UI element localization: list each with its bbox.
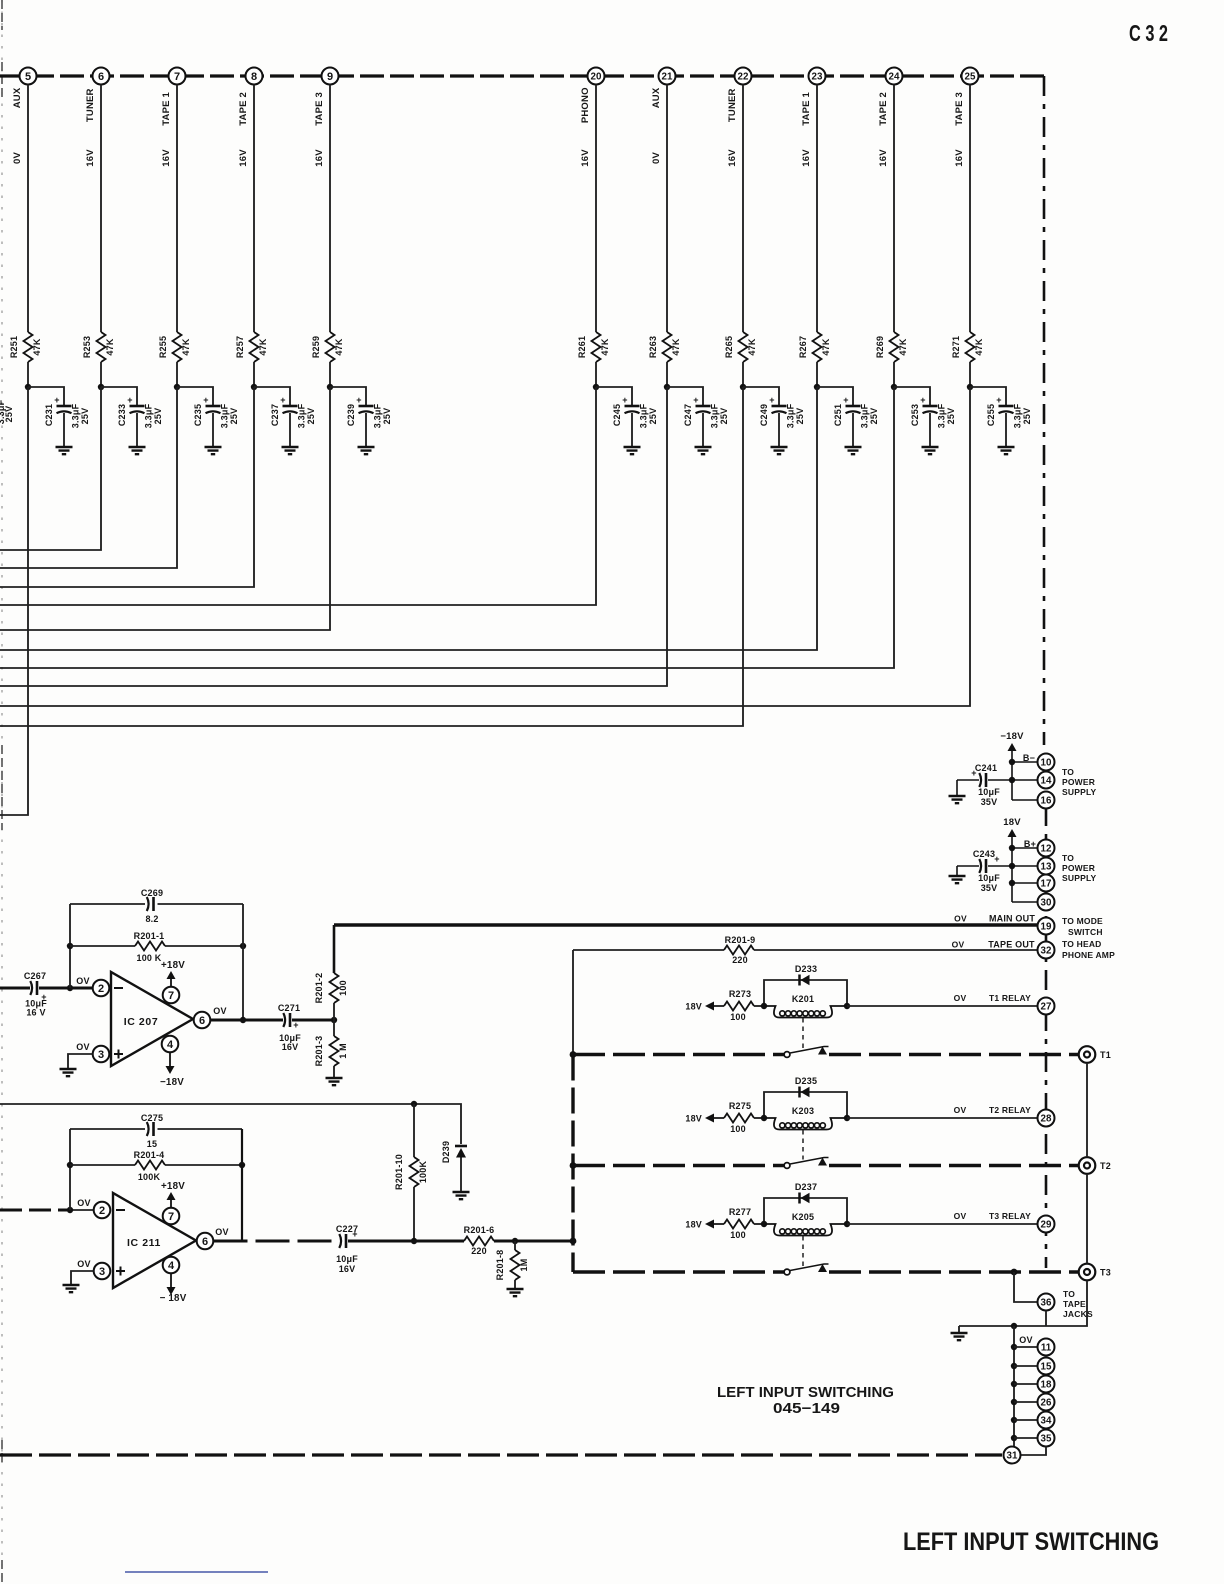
connector circle pin 26 (1038, 1394, 1055, 1411)
resistor R251 47K (9, 332, 42, 362)
resistor R259 47K (311, 332, 344, 362)
svg-text:C241: C241 (975, 763, 997, 773)
svg-text:12: 12 (1041, 844, 1052, 855)
capacitor C241 10uF 35V (957, 763, 1000, 807)
svg-text:10μF: 10μF (978, 787, 1000, 797)
connector circle pin 6 (TUNER input) (93, 68, 110, 85)
label TO POWER SUPPLY (negative rail) (1062, 767, 1097, 797)
wire MAIN OUT bold from R201-2 node to pin 19 (334, 923, 1037, 926)
svg-text:25V: 25V (795, 408, 805, 425)
capacitor C253 3.3uF 25V (910, 395, 956, 428)
node dot R201-1 right (240, 943, 246, 949)
svg-text:−18V: −18V (160, 1077, 184, 1088)
power arrow up to -18V (1008, 743, 1017, 751)
wire column TUNER from junction down to y=726 and left to page edge (0, 387, 743, 726)
wire junction to C251 (817, 387, 853, 406)
node junction dot R257/C237 (251, 384, 257, 390)
op-amp plus sign (IC211) (116, 1267, 125, 1276)
label LEFT INPUT SWITCHING 045-149 (assembly title) (717, 1385, 894, 1417)
capacitor C245 3.3uF 25V (612, 395, 658, 428)
capacitor C233 3.3uF 25V (117, 395, 163, 428)
label 18V feed arrow (R277) (685, 1220, 724, 1230)
wire C251 to ground (852, 413, 854, 447)
svg-text:OV: OV (954, 993, 967, 1003)
node dot OV bus at pin 18 (1011, 1381, 1017, 1387)
svg-text:47K: 47K (747, 338, 757, 355)
svg-text:T3: T3 (1100, 1268, 1111, 1278)
capacitor C251 3.3uF 25V (833, 395, 879, 428)
svg-text:+: + (203, 395, 208, 405)
svg-text:OV: OV (77, 1198, 90, 1208)
connector circle pin 13 (1038, 858, 1055, 875)
svg-text:25V: 25V (306, 408, 316, 425)
pin circle 6 (IC211 output) (197, 1233, 214, 1250)
svg-text:R255: R255 (158, 336, 168, 358)
diode D239 (441, 1141, 467, 1163)
wire C231 to ground (63, 413, 65, 447)
svg-text:9: 9 (327, 71, 333, 83)
node dot R201-4 left (67, 1162, 73, 1168)
svg-text:C233: C233 (117, 404, 127, 426)
svg-text:+: + (622, 395, 627, 405)
svg-text:+: + (356, 395, 361, 405)
connector circle pin 11 (1038, 1339, 1055, 1356)
resistor R273 100 (724, 989, 754, 1022)
svg-text:3.3μF: 3.3μF (144, 403, 154, 428)
svg-text:47K: 47K (821, 338, 831, 355)
connector circle pin 34 (1038, 1412, 1055, 1429)
svg-text:+: + (127, 395, 132, 405)
node junction dot R265/C249 (740, 384, 746, 390)
pin circle 6 (IC207 output) (194, 1012, 211, 1029)
svg-text:3.3μF: 3.3μF (710, 403, 720, 428)
relay coil K203 (764, 1106, 847, 1130)
resistor R263 47K (648, 332, 681, 362)
ground below C253 (922, 447, 939, 454)
mechanical link K203 (dashed) (802, 1130, 804, 1160)
svg-text:+: + (920, 395, 925, 405)
ground below D239 (453, 1192, 470, 1199)
node dot IC207 output/feedback (240, 1017, 246, 1023)
svg-text:1 M: 1 M (338, 1043, 348, 1059)
svg-text:18V: 18V (685, 1114, 702, 1124)
wire feedback right riser down to output (IC211) (241, 1129, 243, 1241)
svg-text:T2: T2 (1100, 1161, 1111, 1171)
wire K205 to pin 29 (847, 1223, 1037, 1225)
wire column TAPE 1 from junction down to y=650 and left to page edge (0, 387, 817, 650)
svg-text:045−149: 045−149 (773, 1401, 840, 1417)
wire T3 jack down to ground rail (959, 1281, 1087, 1327)
svg-text:D233: D233 (795, 964, 817, 974)
svg-text:25V: 25V (229, 408, 239, 425)
resistor R253 47K (82, 332, 115, 362)
svg-text:14: 14 (1041, 776, 1052, 787)
wire column TUNER from junction down to y=550 and left to page edge (0, 387, 101, 550)
svg-text:TUNER: TUNER (727, 88, 738, 122)
wire column AUX from junction down to y=815 and left to page edge (0, 387, 28, 815)
wire switch line T1 bold dashed (left of contact) (573, 1053, 784, 1056)
svg-text:3.3μF: 3.3μF (639, 403, 649, 428)
wire switch line T3 bold dashed (right of contact) (829, 1270, 1079, 1273)
terminal jack T3 (1079, 1264, 1111, 1281)
svg-text:16V: 16V (954, 149, 965, 167)
resistor R201-3 1M (314, 1036, 348, 1067)
op-amp IC207 triangle (111, 972, 193, 1066)
wire OV bus to pin 34 (1014, 1419, 1037, 1421)
connector circle pin 22 (TUNER input) (735, 68, 752, 85)
terminal jack T1 (1079, 1046, 1111, 1063)
wire column PHONO pin 20 down to R261 (595, 85, 597, 333)
svg-text:+: + (280, 395, 285, 405)
svg-text:8: 8 (251, 71, 257, 83)
capacitor C231 3.3uF 25V (44, 395, 90, 428)
svg-text:OV: OV (215, 1227, 228, 1237)
svg-text:R267: R267 (798, 336, 808, 358)
svg-text:3.3μF: 3.3μF (1013, 403, 1023, 428)
svg-text:24: 24 (889, 72, 900, 83)
wire pin 36 down to ground rail (1045, 1311, 1047, 1327)
ground below C241 (949, 796, 966, 803)
svg-text:R271: R271 (951, 336, 961, 358)
mechanical link K205 (dashed) (802, 1236, 804, 1266)
wire pin4 to -18V arrow (169, 1053, 171, 1067)
power arrow -18V (IC211) (167, 1287, 176, 1295)
connector circle pin 36 (1038, 1294, 1055, 1311)
ground below C255 (998, 447, 1015, 454)
svg-text:K205: K205 (792, 1212, 814, 1222)
svg-text:AUX: AUX (12, 87, 23, 108)
svg-text:16V: 16V (161, 149, 172, 167)
wire C245 to ground (631, 413, 633, 447)
wire T3 line down to pin 36 (1014, 1272, 1037, 1302)
node dot OV bus at pin 11 (1011, 1344, 1017, 1350)
wire +18V rail vertical (1012, 837, 1037, 902)
wire junction to C255 (970, 387, 1006, 406)
svg-text:C235: C235 (193, 404, 203, 426)
connector circle pin 18 (1038, 1376, 1055, 1393)
connector circle pin 30 (1038, 894, 1055, 911)
wire: right dashed boundary line (1043, 76, 1046, 745)
resistor R265 47K (724, 332, 757, 362)
wire OV bus down to pin 31 (1013, 1326, 1015, 1446)
wire R201-6 to relay bus, bold (494, 1240, 573, 1243)
svg-text:3.3μF: 3.3μF (860, 403, 870, 428)
resistor R275 100 (724, 1101, 754, 1134)
wire OV bus to pin 18 (1014, 1383, 1037, 1385)
wire R251 to junction (27, 362, 29, 387)
wire IC207 output bold to C271 (211, 1019, 284, 1022)
svg-text:OV: OV (213, 1006, 226, 1016)
op-amp minus sign (114, 987, 123, 989)
svg-text:16V: 16V (801, 149, 812, 167)
svg-text:47K: 47K (105, 338, 115, 355)
wire R259 to junction (329, 362, 331, 387)
svg-text:D237: D237 (795, 1182, 817, 1192)
wire ground rail to ground symbol (958, 1326, 960, 1332)
label TO TAPE JACKS (1063, 1289, 1093, 1319)
wire R201-4 leads (70, 1164, 242, 1166)
ground at IC207 pin 3 (60, 1069, 77, 1076)
svg-text:C231: C231 (44, 404, 54, 426)
label 18V feed arrow (R275) (685, 1114, 724, 1124)
wire column TAPE 1 from junction down to y=568 and left to page edge (0, 387, 177, 568)
wire C247 to ground (702, 413, 704, 447)
svg-text:C251: C251 (833, 404, 843, 426)
wire feedback left riser (69, 904, 71, 988)
connector circle pin 16 (1038, 792, 1055, 809)
svg-text:23: 23 (812, 72, 823, 83)
svg-text:OV: OV (1019, 1335, 1032, 1345)
capacitor C249 3.3uF 25V (759, 395, 805, 428)
svg-text:25V: 25V (382, 408, 392, 425)
svg-text:47K: 47K (334, 338, 344, 355)
wire column AUX pin 21 down to R263 (666, 85, 668, 333)
wire C235 to ground (212, 413, 214, 447)
svg-text:C253: C253 (910, 404, 920, 426)
wire R201-10 bottom lead to output line (413, 1187, 415, 1241)
svg-text:25V: 25V (1022, 408, 1032, 425)
svg-text:R269: R269 (875, 336, 885, 358)
svg-text:TO HEAD: TO HEAD (1062, 939, 1102, 949)
svg-text:+: + (843, 395, 848, 405)
node dot C241/pin14 (1009, 777, 1015, 783)
wire column TUNER pin 22 down to R265 (742, 85, 744, 333)
svg-text:18V: 18V (685, 1002, 702, 1012)
resistor R267 47K (798, 332, 831, 362)
svg-text:TAPE 2: TAPE 2 (878, 92, 889, 126)
connector circle pin 15 (1038, 1358, 1055, 1375)
wire R255 to junction (176, 362, 178, 387)
connector circle pin 14 (1038, 772, 1055, 789)
svg-text:3.3μF: 3.3μF (220, 403, 230, 428)
wire column AUX from junction down to y=686 and left to page edge (0, 387, 667, 686)
wire OV bus to pin 26 (1014, 1401, 1037, 1403)
ground below R201-3 (326, 1078, 343, 1085)
svg-text:2: 2 (98, 983, 104, 995)
node junction dot R251/C231 (25, 384, 31, 390)
wire C249 to ground (778, 413, 780, 447)
svg-text:31: 31 (1007, 1451, 1018, 1462)
svg-text:T1 RELAY: T1 RELAY (989, 993, 1031, 1003)
wire C275 top loop (70, 1128, 242, 1130)
svg-text:35V: 35V (981, 797, 998, 807)
wire input (left) to C267, bold (0, 987, 30, 990)
svg-text:100: 100 (730, 1124, 746, 1134)
svg-text:25V: 25V (153, 408, 163, 425)
wire OV bus to pin 11 (1014, 1346, 1037, 1348)
wire R201-2 bottom lead (333, 1003, 335, 1020)
capacitor C271 10uF 16V (278, 1003, 301, 1052)
svg-text:100K: 100K (138, 1172, 161, 1182)
svg-text:47K: 47K (32, 338, 42, 355)
svg-text:R201-1: R201-1 (134, 931, 165, 941)
ground below C233 (129, 447, 146, 454)
wire junction to C249 (743, 387, 779, 406)
ground below C247 (695, 447, 712, 454)
wire relay bus bold (T1 junction down to T3 line corner) (571, 1055, 574, 1273)
svg-text:TAPE 1: TAPE 1 (161, 92, 172, 126)
svg-text:R259: R259 (311, 336, 321, 358)
wire junction to C235 (177, 387, 213, 406)
svg-text:34: 34 (1041, 1416, 1052, 1427)
wire C253 to ground (929, 413, 931, 447)
relay coil K201 (764, 994, 847, 1018)
svg-text:R201-6: R201-6 (464, 1225, 495, 1235)
node dot K205 right (844, 1221, 850, 1227)
svg-text:16V: 16V (85, 149, 96, 167)
svg-text:C237: C237 (270, 404, 280, 426)
svg-text:TAPE 2: TAPE 2 (238, 92, 249, 126)
wire OV bus to pin 35 (1014, 1437, 1037, 1439)
wire C255 to ground (1005, 413, 1007, 447)
wire pin3 to ground (68, 1054, 93, 1068)
svg-text:18: 18 (1041, 1380, 1052, 1391)
svg-text:25V: 25V (719, 408, 729, 425)
node dot ground rail/OV bus (1011, 1323, 1017, 1329)
op-amp plus sign (114, 1050, 123, 1059)
label TO MODE SWITCH (1062, 916, 1103, 937)
wire R275 to coil node (754, 1117, 764, 1119)
pin circle 7 (IC211 V+) (163, 1208, 180, 1225)
svg-text:47K: 47K (974, 338, 984, 355)
svg-text:B+: B+ (1024, 839, 1036, 849)
connector circle pin 20 (PHONO input) (588, 68, 605, 85)
relay contact K201: movable arm (784, 1047, 828, 1058)
node junction dot R253/C233 (98, 384, 104, 390)
svg-text:25V: 25V (946, 408, 956, 425)
svg-text:17: 17 (1041, 879, 1052, 890)
wire column TAPE 2 pin 8 down to R257 (253, 85, 255, 333)
svg-text:4: 4 (168, 1260, 175, 1272)
wire column TAPE 1 pin 23 down to R267 (816, 85, 818, 333)
svg-text:20: 20 (591, 72, 602, 83)
svg-text:16V: 16V (580, 149, 591, 167)
capacitor C247 3.3uF 25V (683, 395, 729, 428)
wire feedback left riser (IC211) (69, 1129, 71, 1210)
wire C237 to ground (289, 413, 291, 447)
pin circle 3 (IC207 non-inverting) (93, 1046, 110, 1063)
node dot C243/pin13 (1009, 863, 1015, 869)
svg-text:POWER: POWER (1062, 777, 1095, 787)
power arrow up to 18V (1008, 829, 1017, 837)
wire tape-out bus down to T1 switch line (572, 950, 574, 1055)
svg-text:11: 11 (1041, 1343, 1052, 1354)
label TO POWER SUPPLY (positive rail) (1062, 853, 1097, 883)
svg-text:C275: C275 (141, 1113, 163, 1123)
svg-text:T3 RELAY: T3 RELAY (989, 1211, 1031, 1221)
pin circle 4 (IC207 V-) (162, 1036, 179, 1053)
wire T2 jack to T3 jack (1086, 1174, 1088, 1264)
wire switch line T2 bold dashed (right of contact) (829, 1164, 1079, 1167)
resistor R201-2 100 (314, 973, 348, 1004)
wire column TAPE 2 from junction down to y=668 and left to page edge (0, 387, 894, 668)
svg-text:220: 220 (732, 955, 748, 965)
svg-text:OV: OV (952, 940, 965, 950)
wire C241 junction to pin 14 (988, 779, 1012, 781)
svg-text:25V: 25V (869, 408, 879, 425)
node dot K201 left (761, 1003, 767, 1009)
ground below C239 (358, 447, 375, 454)
capacitor C243 10uF 35V (957, 849, 1000, 893)
svg-text:LEFT INPUT SWITCHING: LEFT INPUT SWITCHING (717, 1385, 894, 1401)
svg-text:+: + (352, 1229, 357, 1239)
svg-text:OV: OV (954, 1211, 967, 1221)
node dot OV bus at pin 35 (1011, 1435, 1017, 1441)
connector circle pin 17 (1038, 875, 1055, 892)
connector circle pin 19 (1038, 918, 1055, 935)
node dot OV bus at pin 15 (1011, 1363, 1017, 1369)
svg-text:19: 19 (1041, 922, 1052, 933)
relay coil K205 (764, 1212, 847, 1236)
svg-text:35V: 35V (981, 883, 998, 893)
svg-text:0V: 0V (651, 152, 662, 164)
op-amp IC211 triangle (113, 1193, 196, 1288)
connector circle pin 31 (1004, 1447, 1021, 1464)
svg-text:R201-3: R201-3 (314, 1036, 324, 1067)
svg-text:25: 25 (965, 72, 976, 83)
node dot K203 left (761, 1115, 767, 1121)
svg-text:TUNER: TUNER (85, 88, 96, 122)
svg-text:TAPE 3: TAPE 3 (954, 92, 965, 126)
node dot T3 line to pin36 (1011, 1269, 1018, 1276)
svg-text:R201-9: R201-9 (725, 935, 756, 945)
terminal jack T2 (1079, 1157, 1111, 1174)
wire column AUX pin 5 down to R251 (27, 85, 29, 333)
svg-text:R201-2: R201-2 (314, 973, 324, 1004)
svg-text:15: 15 (1041, 1362, 1052, 1373)
connector circle pin 12 (B+) (1038, 840, 1055, 857)
wire R201-3 top lead (333, 1020, 335, 1036)
connector circle pin 21 (AUX input) (659, 68, 676, 85)
connector circle pin 25 (TAPE 3 input) (962, 68, 979, 85)
ground (tape jack common) (951, 1333, 968, 1340)
svg-text:220: 220 (471, 1246, 487, 1256)
pin circle 2 (IC211 inverting) (94, 1202, 111, 1219)
diode D233 (764, 964, 847, 1006)
svg-text:+18V: +18V (161, 960, 185, 971)
svg-text:25V: 25V (4, 406, 14, 423)
capacitor C269 8.2 (141, 888, 163, 924)
capacitor C239 3.3uF 25V (346, 395, 392, 428)
wire R257 to junction (253, 362, 255, 387)
wire switch line T2 bold dashed (left of contact) (573, 1164, 784, 1167)
svg-text:TO: TO (1062, 853, 1074, 863)
resistor R201-1 100K (134, 931, 165, 963)
svg-text:18V: 18V (1003, 817, 1021, 828)
wire pin 35 to pin 31 corner (1021, 1447, 1047, 1456)
wire C271 to R201-2/R201-3 node, bold (292, 1019, 334, 1022)
svg-text:100 K: 100 K (136, 953, 161, 963)
svg-text:47K: 47K (258, 338, 268, 355)
svg-text:C267: C267 (24, 971, 46, 981)
wire R201-1 leads (70, 945, 243, 947)
resistor R201-10 100K (394, 1154, 428, 1190)
wire pin3 to ground (IC211) (71, 1271, 94, 1284)
svg-text:15: 15 (147, 1139, 157, 1149)
svg-text:R251: R251 (9, 336, 19, 358)
svg-text:C269: C269 (141, 888, 163, 898)
wire column TAPE 3 from junction down to y=706 and left to page edge (0, 387, 970, 706)
resistor R255 47K (158, 332, 191, 362)
wire R271 to junction (969, 362, 971, 387)
wire C233 to ground (136, 413, 138, 447)
svg-text:5: 5 (25, 71, 31, 83)
svg-text:29: 29 (1041, 1220, 1052, 1231)
svg-text:6: 6 (202, 1236, 208, 1248)
node dot R201-8 junction (512, 1238, 518, 1244)
node dot bus/T2 line (570, 1162, 577, 1169)
node dot OV bus at pin 34 (1011, 1417, 1017, 1423)
